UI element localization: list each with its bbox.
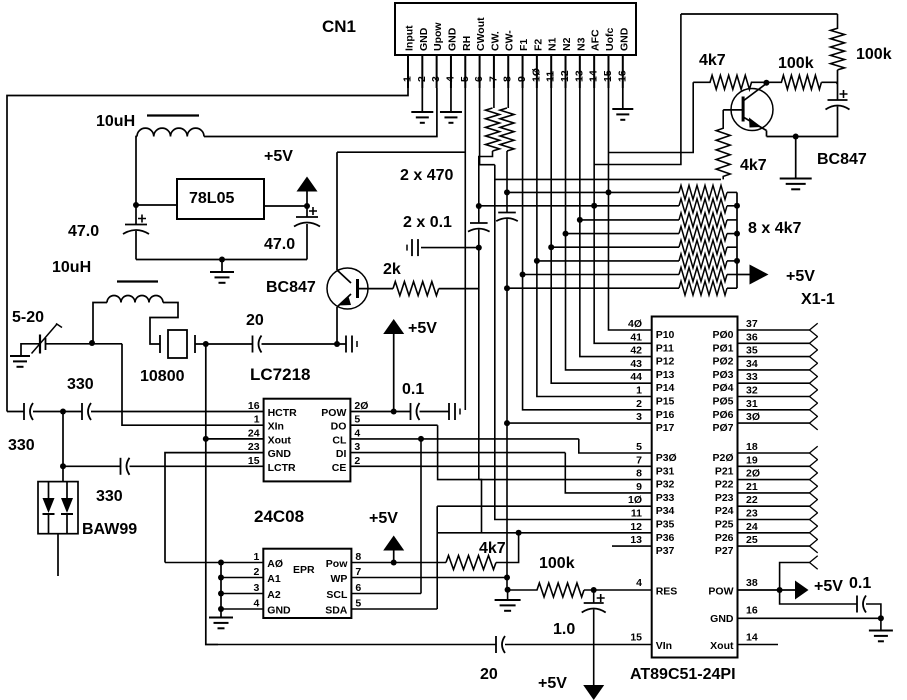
svg-text:6: 6 [355,582,361,594]
wire 100k-h right lead [821,82,837,84]
svg-text:38: 38 [746,577,758,589]
CN1 pin 16 stub [622,55,624,88]
ground at micro [869,631,893,642]
svg-text:1: 1 [636,385,642,397]
junction emitter node [334,341,340,347]
wire net Input from CN1 pin 1 [7,88,408,412]
svg-text:1: 1 [254,414,260,426]
power +5V arrow at POW [383,319,404,334]
capacitor C1 47.0 input [123,215,149,235]
svg-text:Uofc: Uofc [604,28,616,51]
connector chevron P25 [810,513,818,527]
junction collector node [763,80,769,86]
wire C2 bottom lead [306,224,308,260]
CN1 pin 10 stub [536,55,538,88]
junction CL SCL branch [418,436,424,442]
svg-text:AFC: AFC [590,29,602,51]
junction 78L05 input node [133,202,139,208]
wire L1 to 78L05 input [136,137,137,206]
power +5V arrow at regulator output [297,177,318,192]
junction varicap node [60,409,66,415]
connector chevron P02 [810,350,818,364]
wire P20 to connector [738,452,810,454]
wire BAW99 top stem [62,466,64,481]
wire SCL row [351,593,421,595]
wire 24C08 AØ to bus [221,562,263,564]
svg-text:0.1: 0.1 [849,575,871,592]
junction network bar row2 [734,203,740,209]
wire CN1 pin13 down to P1x [580,88,652,357]
svg-text:8: 8 [636,468,642,480]
CN1 pin 2 stub [421,55,423,88]
svg-text:CL: CL [332,434,347,446]
svg-text:2 x 470: 2 x 470 [400,167,453,184]
wire P05 to connector [738,396,810,398]
svg-text:9: 9 [636,481,642,493]
ground at trimmer [10,356,30,367]
connector chevron P04 [810,376,818,390]
svg-text:CW-: CW- [504,30,516,51]
wire P37 stub [612,545,652,547]
wire P36 row [437,532,652,534]
wire DI jog to P33 [565,453,651,493]
wire CL jog to P30 [579,439,652,453]
svg-text:N3: N3 [575,37,587,51]
wire DO down and P32 row [438,425,652,479]
transistor Q1 emitter with arrow [743,117,766,131]
connector chevron P20 [810,446,818,460]
wire P06 to connector [738,409,810,411]
wire network bar to +5V arrow [737,274,750,276]
wire top rail [681,13,838,15]
wire varicap node to LCTR row [62,412,64,467]
svg-text:AØ: AØ [267,558,283,570]
svg-text:20: 20 [480,666,498,683]
svg-text:15: 15 [630,632,642,644]
wire 100k to RES [584,589,652,591]
wire 4k7 right lead up [496,533,519,563]
wire GND pin row [738,617,881,619]
svg-text:1: 1 [253,551,259,563]
ground at Q1 emitter [780,179,812,190]
wire 470b chain mid [506,192,508,212]
svg-text:PØ1: PØ1 [712,342,733,354]
svg-text:5: 5 [354,414,360,426]
svg-text:100k: 100k [778,55,814,72]
svg-text:330: 330 [96,488,123,505]
wire crystal to osc node [195,343,253,345]
wire trimmer left lead [21,344,40,356]
svg-text:P25: P25 [715,519,734,531]
capacitor emitter bypass [346,336,357,353]
wire C2 top lead [306,206,308,217]
wire 78L05 output [264,205,307,207]
junction ground rail [219,257,225,263]
svg-text:19: 19 [746,454,758,466]
junction Xout pin node [203,436,209,442]
wire ground stem regulator [221,260,223,273]
svg-text:36: 36 [746,331,758,343]
svg-text:4: 4 [354,427,360,439]
capacitor 0.1 bypass micro [857,596,866,613]
svg-text:DI: DI [336,448,347,460]
wire reset cap top [593,590,595,603]
wire CN1 pin12 down to P1x [566,88,652,370]
wire +5V arrow stem [306,190,308,206]
connector chevron P23 [810,486,818,500]
svg-text:5: 5 [355,598,361,610]
junction bus A1 [218,575,224,581]
svg-text:Xout: Xout [710,640,734,652]
diode D1 D2 BAW99 frame [38,482,78,534]
svg-text:2: 2 [636,398,642,410]
wire cap bottom to emitter row [767,107,838,137]
wire Xout row [206,438,264,440]
svg-text:32: 32 [746,385,758,397]
wire network row 8 right lead [727,287,737,289]
wire P02 to connector [738,356,810,358]
svg-text:Input: Input [404,25,416,51]
svg-text:CE: CE [332,462,347,474]
wire P26 to connector [738,532,810,534]
CN1 pin 14 stub [593,55,595,88]
wire P21 to connector [738,465,810,467]
wire P27 to connector [738,545,810,547]
svg-text:35: 35 [746,345,758,357]
junction 100k ground node [505,587,511,593]
wire 330 to HCTR [91,411,264,413]
svg-text:16: 16 [746,605,758,617]
junction POW +5V node [391,409,397,415]
CN1 pin 3 stub [436,55,438,88]
wire SCL branch down [420,439,422,594]
svg-text:4k7: 4k7 [699,52,726,69]
svg-text:18: 18 [746,441,758,453]
connector chevron P26 [810,526,818,540]
svg-text:Xout: Xout [268,434,292,446]
svg-text:7: 7 [355,566,361,578]
capacitor 1.0 reset [582,594,606,613]
svg-text:100k: 100k [539,555,575,572]
svg-text:5-20: 5-20 [12,309,44,326]
junction bus GND [218,606,224,612]
wire P34 row [437,505,652,507]
connector CN1 body [395,3,636,55]
wire osc node down to VIn row [206,439,218,645]
wire P04 to connector [738,382,810,384]
wire LCTR row right [130,465,264,467]
wire resistor network row 5 lead [551,246,679,248]
wire resistor network row 2 lead [479,205,679,207]
wire CN1 pin11 down to P1x [551,88,652,383]
svg-text:GND: GND [418,27,430,51]
wire SDA row [351,608,437,610]
svg-text:43: 43 [630,358,642,370]
svg-text:330: 330 [8,437,35,454]
resistor 2k [393,282,439,296]
svg-text:P27: P27 [715,545,734,557]
junction bus AØ [218,560,224,566]
svg-text:PØ4: PØ4 [712,382,733,394]
capacitor 0.1 series first [468,223,490,232]
wire XIn feed [122,344,264,425]
svg-text:XIn: XIn [268,421,284,433]
wire POW row [350,411,410,413]
capacitor 330 third [121,458,130,475]
CN1 pin 12 stub [565,55,567,88]
wire CN1 pin14 AFC down [594,88,652,343]
IC U1 LC7218 body [264,399,351,482]
svg-text:10uH: 10uH [96,113,135,130]
wire network row 1 right lead [727,191,737,193]
transistor Q1 collector [743,84,766,102]
svg-text:GND: GND [267,605,291,617]
wire resistor network row 1 lead [507,191,679,193]
wire L2 left leg [93,303,107,344]
svg-text:4k7: 4k7 [740,157,767,174]
wire 470b to row1 [506,151,508,192]
svg-text:EPR: EPR [293,564,315,576]
wire DO row [350,424,437,426]
resistor 4k7 feedback [693,75,766,89]
wire BAW99 bottom stem [57,534,59,576]
junction LCTR node [60,463,66,469]
wire POW pin row [738,589,796,591]
svg-text:PØ5: PØ5 [712,396,733,408]
connector chevron P06 [810,403,818,417]
svg-text:P15: P15 [656,396,675,408]
svg-text:3: 3 [253,582,259,594]
svg-text:42: 42 [630,345,642,357]
wire resistor network row 7 lead [523,274,679,276]
wire network row 5 right lead [727,246,737,248]
wire 470a jog to cap chain [479,151,493,206]
wire 2k to coupling chain [439,288,479,290]
svg-text:7: 7 [636,454,642,466]
resistor 4k7 pullup [446,556,496,570]
svg-text:41: 41 [630,331,642,343]
resistor 4k7 base lower [716,110,730,179]
svg-text:11: 11 [631,508,642,520]
wire P24 to connector [738,505,810,507]
junction cap chain top [476,203,482,209]
junction P36 4k7 node [516,530,522,536]
svg-text:3: 3 [636,411,642,423]
svg-text:POW: POW [321,407,346,419]
capacitor 20pF osc [253,336,262,353]
junction tank node [89,340,95,346]
wire resistor network row 3 lead [580,219,679,221]
svg-text:+5V: +5V [538,675,567,692]
svg-text:31: 31 [746,398,758,410]
capacitor C2 47.0 output [294,207,320,227]
wire VIn row right [505,644,652,646]
wire WP row [351,577,507,579]
resistor 4k7 network 5 [679,240,727,254]
regulator U2 78L05 body [177,179,264,219]
resistor 4k7 network 1 [679,185,727,199]
wire CN1 pin9 down to P1x [523,88,652,410]
wire +5V stem POW [393,333,395,412]
junction Uofc row1 [605,189,611,195]
transistor Q2 emitter with arrow [337,294,351,307]
svg-text:SDA: SDA [325,605,348,617]
resistor 4k7 network 6 [679,254,727,268]
wire 100k bottom lead [837,70,839,100]
wire 470b chain to row8 [506,219,508,288]
svg-text:P10: P10 [656,329,675,341]
svg-text:P23: P23 [715,492,734,504]
svg-text:X1-1: X1-1 [801,291,835,308]
junction GND node [878,615,884,621]
wire POW cap to stub cap [420,411,450,413]
svg-text:LCTR: LCTR [268,462,296,474]
wire chain jog to P36 feeder [479,480,482,533]
svg-text:SCL: SCL [326,589,348,601]
svg-text:47.0: 47.0 [264,236,295,253]
svg-text:GND: GND [268,448,292,460]
capacitor top right electrolytic [826,90,850,110]
power +5V arrow at POW pin [795,581,809,600]
inductor L2 10uH [107,282,163,303]
junction network bar row4 [734,231,740,237]
svg-text:VIn: VIn [656,640,672,652]
CN1 pin 8 stub [507,55,509,88]
wire P00 to connector [738,329,810,331]
connector chevron P24 [810,499,818,513]
wire P07 to connector [738,422,810,424]
svg-text:LC7218: LC7218 [250,365,310,384]
capacitor 20 VIn [496,636,505,653]
svg-text:25: 25 [746,534,758,546]
svg-text:+5V: +5V [786,268,815,285]
svg-text:P22: P22 [715,479,734,491]
svg-text:A2: A2 [267,589,281,601]
svg-text:N1: N1 [547,37,559,51]
wire POW to connector supply [780,563,810,591]
transistor Q2 collector [337,270,351,283]
wire bypass cap to gnd corner [866,604,881,618]
svg-text:10uH: 10uH [52,259,91,276]
junction emitter ground node [793,134,799,140]
ground at 24C08 bus [209,618,233,629]
capacitor 0.1 at POW [411,403,420,420]
svg-text:GND: GND [710,613,734,625]
junction P17 feeder [504,420,510,426]
svg-text:PØ3: PØ3 [712,369,733,381]
wire CN1 pin6 CWout down [480,88,495,165]
connector chevron P07 [810,416,818,430]
svg-text:RES: RES [656,586,678,598]
connector chevron supply [810,556,818,570]
wire chain down to P17 and 100k [506,288,508,590]
junction RES cap node [591,587,597,593]
diode D2 triangle [61,498,73,513]
wire CWout branch to base divider row [495,178,721,180]
wire 24C08 GND to bus [221,608,263,610]
wire P22 to connector [738,479,810,481]
wire CN1 pin4 to ground [450,88,452,112]
wire input cap to regulator [136,204,177,206]
CN1 pin 6 stub [479,55,481,88]
wire LCTR row left [63,465,121,467]
wire VIn row left [218,644,496,646]
ground CN1 pin 2 [411,112,433,123]
wire 24C08 A1 to bus [221,577,263,579]
svg-text:PØ6: PØ6 [712,409,733,421]
wire Pow row [351,562,446,564]
svg-text:P35: P35 [656,519,675,531]
capacitor 330 second [82,403,91,420]
wire osc node down to Xout [205,344,207,439]
junction WP ground chain [504,575,510,581]
wire CN1 pin15 Uofc down [608,88,651,330]
svg-text:CW.: CW. [489,31,501,51]
wire CE row to P31 [350,465,651,467]
IC U3 24C08 body [263,549,351,618]
svg-text:RH: RH [461,36,473,51]
svg-text:100k: 100k [856,46,892,63]
junction resistor row at pin10 [534,258,540,264]
svg-text:+5V: +5V [408,320,437,337]
svg-text:3: 3 [354,441,360,453]
wire CN1 pin10 down to P1x [537,88,652,397]
wire between 330 caps [33,411,82,413]
wire network row 4 right lead [727,233,737,235]
junction resistor row at pin11 [548,244,554,250]
svg-text:13: 13 [630,534,642,546]
variable capacitor CT1 5-20 [32,324,63,354]
wire HCTR row left [7,411,24,413]
svg-text:2Ø: 2Ø [354,400,368,412]
svg-text:22: 22 [746,494,758,506]
svg-text:34: 34 [746,358,758,370]
CN1 pin 15 stub [607,55,609,88]
svg-text:2Ø: 2Ø [746,468,760,480]
svg-text:POW: POW [708,586,733,598]
wire 24C08 address bus [220,563,222,618]
svg-text:8 x 4k7: 8 x 4k7 [748,220,801,237]
resistor 470 second [500,108,514,151]
wire A0 row to LC GND line [165,562,221,564]
resistor 100k vertical [831,14,845,70]
wire Xout stub [738,644,779,646]
resistor 4k7 network 4 [679,227,727,241]
svg-text:WP: WP [330,573,347,585]
wire gnd stem micro [880,618,882,630]
ground at 100k [495,600,521,611]
svg-text:P17: P17 [656,422,675,434]
svg-text:BAW99: BAW99 [82,521,137,538]
svg-text:1.0: 1.0 [553,621,575,638]
svg-text:P26: P26 [715,532,734,544]
wire Q2 base to 2k [358,288,394,290]
svg-text:Pow: Pow [326,558,348,570]
wire L2 right leg to crystal [150,303,178,345]
capacitor 2x0.1 ground stub [407,239,418,256]
svg-text:12: 12 [630,521,642,533]
svg-text:15: 15 [248,455,260,467]
wire C1 top lead [135,205,137,225]
connector chevron P05 [810,390,818,404]
svg-text:F1: F1 [518,39,530,51]
inductor L1 10uH [137,116,204,137]
svg-text:2k: 2k [383,261,401,278]
svg-text:P34: P34 [656,505,675,517]
wire P23 to connector [738,492,810,494]
svg-text:P14: P14 [656,382,675,394]
wire LC7218 GND pin to 24C08 bus [165,453,264,563]
